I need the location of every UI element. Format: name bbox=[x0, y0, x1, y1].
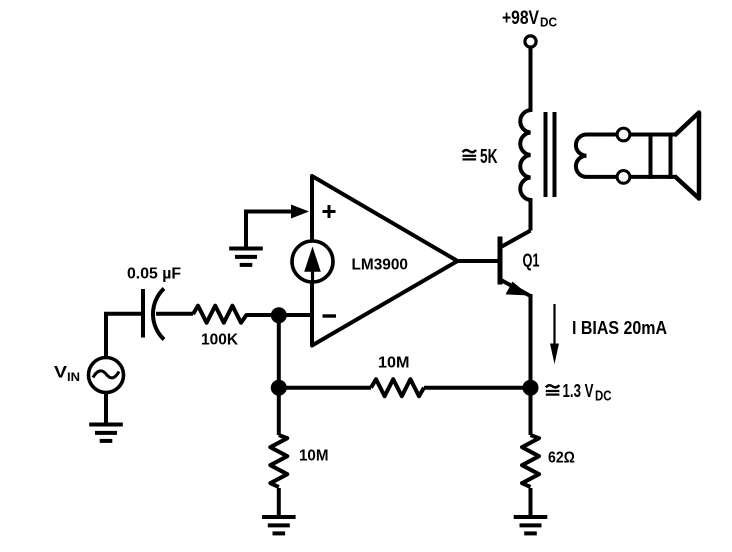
svg-text:DC: DC bbox=[540, 15, 557, 30]
wire: VIN to capacitor bbox=[106, 314, 141, 358]
wire: capacitor to R1 bbox=[156, 312, 193, 316]
op-amp + input marker bbox=[323, 210, 336, 213]
I BIAS arrow bbox=[553, 304, 555, 345]
svg-text:DC: DC bbox=[595, 388, 612, 405]
svg-text:+98V: +98V bbox=[502, 8, 539, 29]
svg-text:10M: 10M bbox=[378, 355, 410, 372]
transformer secondary coil bbox=[576, 135, 617, 177]
wire: supply to transformer primary, primary coil L1, wire to collector bbox=[520, 48, 530, 231]
op-amp U1 triangle bbox=[312, 176, 458, 346]
wire: Q1 emitter down to node C bbox=[529, 294, 533, 388]
wire: node A down to node B bbox=[277, 315, 281, 387]
wire: ground to + input with arrow bbox=[246, 212, 293, 247]
label ~=5K (primary impedance) bbox=[463, 150, 477, 152]
wire: op-amp output to Q1 base bbox=[458, 259, 499, 263]
node C (emitter / feedback junction) bbox=[523, 380, 539, 396]
current source (Norton) in op-amp bbox=[292, 241, 333, 282]
resistor R1 100K bbox=[193, 306, 247, 323]
wire: R4 to ground bbox=[529, 488, 533, 516]
wire: node B down to R3 bbox=[277, 388, 281, 435]
wire: node C down to R4 bbox=[529, 388, 533, 435]
svg-text:5K: 5K bbox=[480, 146, 498, 168]
speaker LS1 bbox=[649, 133, 653, 179]
op-amp - input marker bbox=[323, 314, 337, 317]
node A (inverting input junction) bbox=[271, 307, 287, 323]
transformer core T1 bbox=[544, 112, 548, 197]
resistor R4 62ohm bbox=[522, 435, 539, 487]
wire: R2 to node C bbox=[424, 386, 531, 390]
ground (R4) bbox=[514, 517, 548, 533]
svg-text:10M: 10M bbox=[299, 448, 329, 465]
node B (bottom of node A leg) bbox=[271, 380, 287, 396]
svg-text:IN: IN bbox=[67, 372, 80, 384]
wire: terminals to speaker bbox=[630, 133, 676, 137]
svg-text:1.3 V: 1.3 V bbox=[563, 381, 594, 401]
ground (VIN source) bbox=[89, 425, 123, 441]
label ~=1.3 VDC bbox=[546, 385, 560, 387]
wire: R1 to - input node bbox=[246, 313, 312, 317]
speaker terminal (top) bbox=[617, 128, 630, 141]
resistor R3 10M (to ground) bbox=[270, 435, 287, 487]
source VIN (sine) bbox=[89, 358, 124, 393]
resistor R2 10M (feedback) bbox=[371, 379, 424, 396]
svg-text:100K: 100K bbox=[201, 332, 239, 349]
capacitor C1 0.05uF bbox=[141, 289, 145, 338]
svg-text:I BIAS 20mA: I BIAS 20mA bbox=[572, 318, 667, 338]
svg-text:LM3900: LM3900 bbox=[352, 257, 409, 274]
svg-text:62Ω: 62Ω bbox=[548, 450, 575, 467]
ground (R3) bbox=[262, 517, 296, 533]
svg-text:V: V bbox=[54, 363, 68, 382]
svg-text:Q1: Q1 bbox=[523, 251, 540, 271]
svg-text:0.05 µF: 0.05 µF bbox=[127, 266, 181, 283]
wire: node A/B to 10M feedback resistor bbox=[279, 386, 371, 390]
transistor Q1 bbox=[498, 237, 503, 285]
wire: R3 to ground bbox=[277, 488, 281, 516]
supply terminal bbox=[525, 36, 536, 47]
speaker terminal (bottom) bbox=[617, 171, 630, 184]
wire: VIN to ground bbox=[104, 393, 108, 425]
ground (non-inverting input) bbox=[229, 249, 263, 265]
